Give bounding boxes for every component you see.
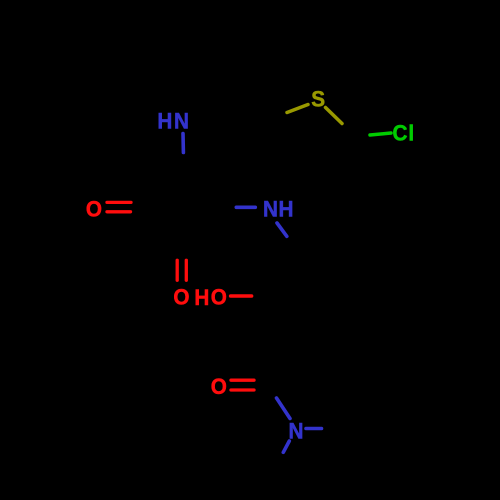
- amide N3 label: [289, 419, 304, 444]
- amide O4 label (bottom): [211, 374, 227, 399]
- svg-text:C: C: [393, 121, 408, 146]
- svg-text:N: N: [263, 197, 278, 222]
- wire bond N2-C4 (ring, left): [236, 206, 255, 210]
- svg-text:N: N: [174, 109, 189, 134]
- svg-text:O: O: [211, 374, 227, 399]
- wire bond N3-CH3 (down-left): [283, 441, 289, 452]
- svg-text:O: O: [173, 285, 189, 310]
- wire double bond O2=C (vertical pair): [177, 260, 186, 280]
- svg-text:O: O: [86, 197, 102, 222]
- wire bond N3-CH3 (right): [306, 427, 322, 431]
- ketone O2 label (middle): [173, 285, 189, 310]
- svg-text:S: S: [311, 87, 325, 112]
- chlorine Cl1 label: [393, 121, 415, 146]
- wire bond N1-C3 (ring): [181, 134, 185, 153]
- svg-text:N: N: [289, 419, 304, 444]
- svg-text:H: H: [279, 197, 294, 222]
- amine N1 label (HN): [157, 109, 189, 134]
- ketone O1 label (left): [86, 197, 102, 222]
- wire bond O3-C (right): [231, 294, 252, 298]
- wire bond N2-CH2 (down-right): [277, 223, 287, 236]
- wire double bond O4=C (horizontal pair): [231, 380, 254, 390]
- svg-text:H: H: [157, 109, 172, 134]
- wire bond C2-Cl1: [370, 133, 391, 135]
- wire bond S1-C5 (thiophene left): [287, 105, 308, 113]
- wire double bond O1=C (horizontal pair): [107, 202, 131, 211]
- hydroxyl O3 label (HO): [194, 285, 227, 310]
- svg-text:l: l: [408, 121, 414, 146]
- wire bond N3-C(=O) (up-left): [277, 398, 291, 419]
- thiophene S1 label: [311, 87, 325, 112]
- wire bond S1-C2 (thiophene right): [326, 108, 343, 124]
- amine N2 label (NH): [263, 197, 293, 222]
- svg-text:O: O: [211, 285, 227, 310]
- svg-text:H: H: [194, 285, 209, 310]
